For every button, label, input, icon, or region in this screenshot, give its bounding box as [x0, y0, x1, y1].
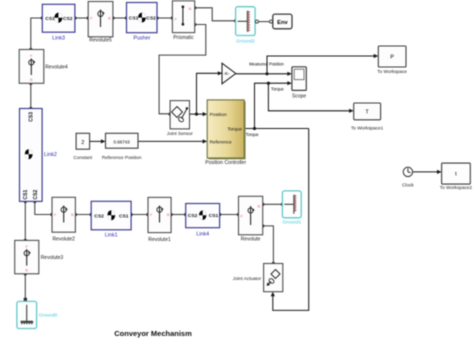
svg-text:B: B — [189, 6, 192, 11]
svg-text:CS1: CS1 — [45, 16, 55, 22]
svg-text:CS1: CS1 — [23, 190, 29, 200]
joint Revolute5 — [88, 2, 113, 44]
svg-text:To Workspace1: To Workspace1 — [351, 126, 384, 131]
svg-text:Scope: Scope — [292, 93, 306, 99]
wire Revolute5 B to Pusher CS1 — [113, 17, 127, 19]
wire Position Controller Torque out — [244, 128, 309, 130]
joint Prismatic — [172, 1, 194, 41]
svg-text:B: B — [71, 212, 74, 217]
wire sensor junction up to gain — [197, 73, 220, 114]
svg-text:Env: Env — [277, 20, 288, 26]
joint Revolute — [239, 196, 263, 242]
svg-text:Ground2: Ground2 — [236, 38, 255, 44]
svg-text:Position: Position — [210, 112, 227, 118]
body block Link3 — [42, 4, 75, 41]
body block Link2 — [20, 109, 57, 202]
arrow into Position Controller Position — [203, 112, 208, 116]
block Constant — [73, 133, 92, 160]
wire Revolute actuator port to Joint Actuator — [263, 226, 274, 264]
svg-text:B: B — [167, 212, 170, 217]
wire Revolute B to Ground1 — [263, 203, 282, 205]
arrow into Reference Position — [101, 139, 106, 143]
node gain-out junction — [265, 72, 268, 75]
wire Pusher CS2 to Prismatic F — [157, 17, 172, 19]
subsystem Position Controller — [205, 100, 246, 166]
arrow into Position Controller Reference — [203, 139, 208, 143]
node scope-in2 junction — [267, 82, 270, 85]
svg-text:CS2: CS2 — [94, 213, 104, 219]
physical port markers — [24, 6, 284, 301]
svg-text:Joint Sensor: Joint Sensor — [167, 131, 193, 136]
wire junction down to To Workspace1 T — [268, 83, 351, 111]
svg-text:Prismatic: Prismatic — [173, 35, 194, 41]
svg-text:Revolute2: Revolute2 — [52, 237, 75, 243]
svg-text:Reference Position: Reference Position — [102, 155, 142, 160]
block Env (machine environment) — [270, 14, 293, 29]
arrow into Scope in2 — [287, 81, 292, 85]
svg-text:Torque: Torque — [271, 87, 284, 92]
svg-text:CS1: CS1 — [209, 213, 219, 219]
svg-text:Clock: Clock — [402, 182, 414, 187]
svg-text:Revolute5: Revolute5 — [89, 38, 112, 44]
arrow into To Workspace2 — [437, 170, 442, 174]
svg-text:CS1: CS1 — [119, 213, 129, 219]
ground Ground2 — [236, 7, 259, 45]
svg-text:CS3: CS3 — [29, 112, 35, 122]
gain -K- — [222, 63, 236, 84]
wire torque down to Joint Actuator — [273, 129, 309, 311]
svg-text:To Workspace2: To Workspace2 — [440, 185, 473, 190]
svg-text:B: B — [108, 16, 111, 21]
joint Revolute4 — [19, 50, 68, 84]
svg-text:CS1: CS1 — [129, 16, 139, 22]
svg-text:Link3: Link3 — [52, 35, 65, 41]
wire torque up to Scope in2 — [255, 83, 290, 128]
wire Prismatic B to Ground2 — [195, 8, 235, 21]
body block Link1 — [91, 201, 131, 238]
svg-text:CS2: CS2 — [146, 16, 156, 22]
svg-text:Joint Actuator: Joint Actuator — [233, 276, 262, 281]
svg-text:To Workspace: To Workspace — [377, 69, 407, 74]
actuator Joint Actuator — [233, 264, 283, 292]
svg-text:T: T — [365, 110, 369, 116]
body block Link4 — [186, 204, 220, 238]
wire Link3 CS1 to Revolute4 — [31, 18, 43, 50]
scope Scope — [292, 67, 307, 100]
block To Workspace1 (T) — [351, 103, 384, 131]
wire Revolute1 B to Link4 CS2 — [171, 214, 186, 216]
wire Constant to Reference Position — [90, 140, 103, 142]
arrow into gain — [218, 71, 223, 75]
svg-text:Link1: Link1 — [105, 232, 118, 238]
sensor Joint Sensor — [167, 101, 193, 136]
svg-text:B: B — [25, 268, 28, 273]
svg-text:B: B — [30, 77, 33, 82]
joint Revolute2 — [52, 197, 75, 242]
wire Prismatic sensor port to Joint Sensor — [159, 25, 206, 114]
wire Link3 CS2 to Revolute5 F — [75, 17, 88, 19]
wire Clock to To Workspace2 — [413, 171, 439, 173]
arrow into Joint Actuator bottom — [271, 292, 275, 297]
wire junction up to To Workspace P — [267, 56, 376, 74]
wire Joint Sensor out to Position Controller — [190, 113, 206, 115]
svg-text:Torque: Torque — [227, 127, 242, 133]
arrow into To Workspace1 T — [349, 109, 354, 113]
wire Link4 CS1 to Revolute F — [220, 214, 239, 216]
arrow into To Workspace P — [374, 54, 379, 58]
svg-text:CS2: CS2 — [188, 213, 198, 219]
svg-text:Revolute: Revolute — [241, 237, 261, 243]
node sensor junction — [195, 113, 198, 116]
svg-text:Link2: Link2 — [44, 152, 57, 158]
wire Revolute2 B to Link1 CS2 — [75, 214, 91, 216]
clock Clock — [402, 167, 414, 187]
block To Workspace (P) — [377, 46, 407, 74]
wire Revolute4 B to Link2 CS3 — [30, 83, 32, 108]
svg-text:Pusher: Pusher — [133, 35, 150, 41]
svg-text:Ground0: Ground0 — [39, 313, 58, 319]
svg-text:Constant: Constant — [73, 155, 92, 160]
svg-text:Revolute3: Revolute3 — [41, 255, 64, 261]
svg-text:Link4: Link4 — [196, 232, 209, 238]
svg-text:P: P — [390, 55, 394, 61]
ground Ground1 — [282, 191, 301, 226]
svg-text:CS2: CS2 — [63, 16, 73, 22]
wire Reference Position to Position Controller — [138, 140, 205, 142]
wire Link2 CS2 to Revolute2 F — [35, 201, 52, 214]
svg-text:-K-: -K- — [224, 71, 231, 76]
block Reference Position — [102, 133, 142, 160]
svg-text:Torque: Torque — [246, 132, 259, 137]
wire Revolute3 B to Ground0 — [24, 274, 26, 300]
svg-text:B: B — [258, 204, 261, 209]
wire Ground2 to Env — [258, 21, 270, 23]
node torque junction — [253, 127, 256, 130]
body block Pusher — [127, 3, 158, 42]
svg-text:CS2: CS2 — [33, 190, 39, 200]
block To Workspace2 (t) — [440, 163, 473, 190]
wire Link1 CS1 to Revolute1 F — [131, 214, 148, 216]
svg-text:Revolute4: Revolute4 — [45, 64, 68, 70]
joint Revolute1 — [148, 197, 171, 242]
svg-text:2: 2 — [81, 140, 84, 146]
arrow into Scope in1 — [287, 72, 292, 76]
svg-text:Measured Position: Measured Position — [249, 62, 284, 67]
svg-text:0.66743: 0.66743 — [114, 139, 131, 144]
svg-text:Revolute1: Revolute1 — [148, 237, 171, 243]
joint Revolute3 — [15, 240, 64, 273]
wire Link2 CS1 down to Revolute3 — [24, 201, 26, 240]
wire gain out to Scope in1 — [236, 73, 290, 75]
svg-text:Ground1: Ground1 — [282, 219, 301, 225]
svg-text:Reference: Reference — [210, 140, 232, 146]
ground Ground0 — [17, 301, 58, 328]
svg-text:Position Controller: Position Controller — [205, 160, 246, 166]
svg-text:Conveyor Mechanism: Conveyor Mechanism — [114, 329, 192, 338]
